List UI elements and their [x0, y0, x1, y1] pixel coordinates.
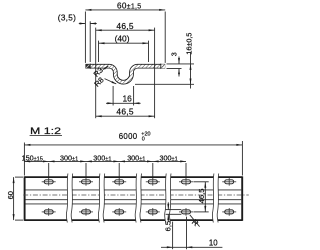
dimension 10	[161, 217, 222, 250]
svg-text:10: 10	[209, 239, 218, 248]
scale label M 1:2	[30, 125, 62, 136]
plan view band outline	[24, 176, 242, 220]
dimension 6,5 slot width	[164, 202, 182, 231]
svg-text:60: 60	[6, 191, 15, 199]
slotted hole top row x=186	[179, 178, 193, 186]
leader R8 (bottom radius)	[92, 75, 116, 88]
svg-text:46,5: 46,5	[197, 189, 206, 204]
svg-text:3: 3	[171, 52, 178, 56]
svg-text:6,5: 6,5	[164, 221, 173, 232]
dimension 16 dip width	[106, 86, 141, 106]
dimension 3 thickness	[167, 52, 195, 76]
section profile (hat channel, hatched cut)	[85, 66, 165, 82]
dimension 6000 +20/0 overall length	[24, 131, 242, 175]
break symbol x=102	[98, 174, 104, 223]
slotted hole top row x=86	[79, 178, 93, 186]
bend line upper	[26, 189, 242, 191]
extension lines from top-row holes up to pitch dims	[48, 163, 50, 179]
dimension 46,5 hole spacing (section top)	[96, 21, 155, 118]
pitch dimensions 150±15, 300±1 chain	[22, 153, 186, 178]
tab division line left	[89, 64, 91, 69]
slotted hole top row x=119.2	[112, 178, 126, 186]
slotted hole bottom row x=86	[79, 208, 93, 216]
bend line lower outer	[26, 203, 242, 205]
svg-text:0: 0	[142, 137, 145, 143]
dimension 60 band width	[6, 177, 23, 220]
break symbol x=216	[212, 174, 218, 223]
slotted hole top row x=48.7	[42, 178, 56, 186]
bend line lower	[26, 199, 242, 201]
svg-text:46,5: 46,5	[116, 21, 134, 31]
break symbol x=70.0	[66, 174, 72, 223]
svg-text:M 1:2: M 1:2	[30, 125, 61, 136]
tab left (3,5) filled	[86, 64, 91, 68]
svg-text:6000: 6000	[119, 132, 138, 141]
leader R3 (top fillet radius)	[92, 66, 109, 79]
dimension (3,5) end tab	[58, 14, 97, 62]
svg-text:16: 16	[123, 94, 133, 104]
tab right	[161, 64, 165, 68]
svg-text:(3,5): (3,5)	[58, 14, 76, 23]
slotted hole top row x=229.2	[222, 178, 236, 186]
tab division line right	[160, 64, 162, 69]
slotted hole bottom row x=229.2	[222, 208, 236, 216]
dimension 60±1,5 overall width	[85, 1, 165, 63]
svg-text:46,5: 46,5	[116, 107, 134, 117]
leader R slot end radius	[190, 215, 201, 229]
dimension (40)	[99, 34, 149, 63]
svg-text:16±0,5: 16±0,5	[185, 33, 194, 55]
slotted hole top row x=152.8	[146, 178, 160, 186]
slotted hole bottom row x=119.2	[112, 208, 126, 216]
break symbol x=168.3	[165, 174, 171, 223]
dimension 16±0,5 profile height	[135, 33, 194, 89]
dimension 46,5 (section bottom)	[96, 107, 155, 118]
dimension 46,5 row spacing (plan)	[193, 182, 208, 212]
svg-text:60±1,5: 60±1,5	[117, 1, 142, 10]
slotted hole bottom row x=186	[179, 208, 193, 216]
centerline (dash-dot)	[23, 194, 249, 196]
slotted hole bottom row x=152.8	[146, 208, 160, 216]
break symbol x=138.8	[135, 174, 141, 223]
svg-text:(40): (40)	[115, 34, 130, 44]
slotted hole bottom row x=48.7	[42, 208, 56, 216]
